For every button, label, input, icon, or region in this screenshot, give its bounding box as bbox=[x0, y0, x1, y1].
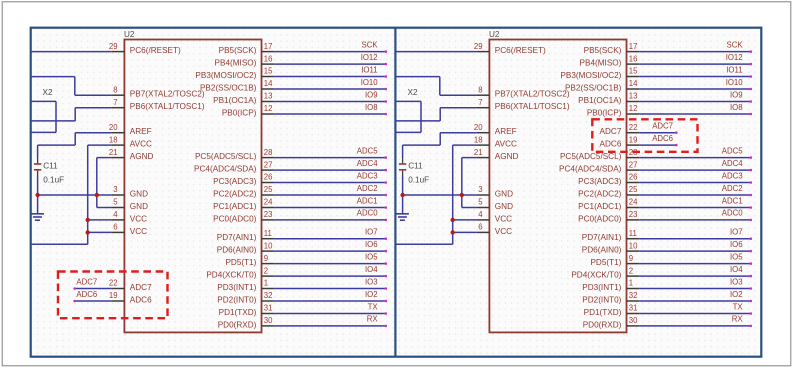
svg-text:ADC0: ADC0 bbox=[357, 209, 378, 218]
svg-text:19: 19 bbox=[629, 135, 638, 144]
svg-text:ADC2: ADC2 bbox=[722, 184, 743, 193]
svg-text:IO4: IO4 bbox=[365, 265, 378, 274]
svg-text:PC4(ADC4/SDA): PC4(ADC4/SDA) bbox=[559, 165, 622, 174]
svg-text:GND: GND bbox=[495, 190, 513, 199]
svg-text:VCC: VCC bbox=[495, 214, 512, 223]
svg-text:2: 2 bbox=[629, 266, 633, 275]
svg-text:9: 9 bbox=[629, 254, 633, 263]
svg-text:ADC3: ADC3 bbox=[357, 171, 378, 180]
svg-text:PB5(SCK): PB5(SCK) bbox=[219, 46, 257, 55]
svg-text:22: 22 bbox=[109, 279, 118, 288]
svg-text:TX: TX bbox=[368, 302, 379, 311]
svg-text:21: 21 bbox=[474, 148, 483, 157]
svg-text:C11: C11 bbox=[43, 162, 58, 171]
svg-text:PC3(ADC3): PC3(ADC3) bbox=[213, 177, 256, 186]
svg-text:PB4(MISO): PB4(MISO) bbox=[215, 59, 257, 68]
svg-text:PB2(SS/OC1B): PB2(SS/OC1B) bbox=[200, 84, 257, 93]
svg-text:6: 6 bbox=[113, 223, 117, 232]
svg-text:VCC: VCC bbox=[130, 214, 147, 223]
svg-text:PD4(XCK/T0): PD4(XCK/T0) bbox=[206, 271, 256, 280]
svg-text:1: 1 bbox=[264, 279, 268, 288]
svg-text:12: 12 bbox=[264, 104, 273, 113]
svg-text:IO8: IO8 bbox=[730, 103, 743, 112]
svg-text:ADC6: ADC6 bbox=[652, 134, 673, 143]
svg-text:PD7(AIN1): PD7(AIN1) bbox=[582, 233, 622, 242]
svg-text:16: 16 bbox=[264, 54, 273, 63]
svg-text:IO3: IO3 bbox=[365, 277, 378, 286]
svg-text:22: 22 bbox=[629, 123, 638, 132]
svg-text:VCC: VCC bbox=[130, 227, 147, 236]
svg-text:25: 25 bbox=[629, 185, 638, 194]
svg-text:2: 2 bbox=[264, 266, 268, 275]
svg-text:IO10: IO10 bbox=[361, 78, 379, 87]
svg-text:IO5: IO5 bbox=[730, 252, 743, 261]
svg-text:IO10: IO10 bbox=[726, 78, 744, 87]
svg-text:RX: RX bbox=[367, 315, 379, 324]
svg-text:PD2(INT0): PD2(INT0) bbox=[217, 296, 256, 305]
svg-text:3: 3 bbox=[113, 185, 117, 194]
svg-text:PC5(ADC5/SCL): PC5(ADC5/SCL) bbox=[560, 152, 622, 161]
svg-text:ADC7: ADC7 bbox=[600, 127, 622, 136]
svg-text:PD6(AIN0): PD6(AIN0) bbox=[582, 246, 622, 255]
svg-text:PB3(MOSI/OC2): PB3(MOSI/OC2) bbox=[195, 71, 256, 80]
svg-text:5: 5 bbox=[113, 198, 118, 207]
svg-text:18: 18 bbox=[474, 135, 483, 144]
svg-text:ADC6: ADC6 bbox=[600, 140, 622, 149]
svg-text:VCC: VCC bbox=[495, 227, 512, 236]
svg-text:IO11: IO11 bbox=[726, 65, 742, 74]
svg-text:IO6: IO6 bbox=[730, 240, 743, 249]
svg-text:15: 15 bbox=[264, 67, 273, 76]
svg-text:PC2(ADC2): PC2(ADC2) bbox=[213, 190, 256, 199]
svg-text:ADC4: ADC4 bbox=[357, 159, 378, 168]
svg-text:8: 8 bbox=[478, 85, 482, 94]
svg-text:U2: U2 bbox=[124, 30, 135, 39]
svg-text:X2: X2 bbox=[408, 88, 418, 97]
svg-text:0.1uF: 0.1uF bbox=[43, 175, 64, 184]
svg-text:GND: GND bbox=[495, 202, 513, 211]
svg-text:3: 3 bbox=[478, 185, 482, 194]
svg-text:28: 28 bbox=[264, 148, 273, 157]
svg-text:PC1(ADC1): PC1(ADC1) bbox=[213, 202, 256, 211]
svg-text:ADC1: ADC1 bbox=[357, 196, 378, 205]
svg-text:PC2(ADC2): PC2(ADC2) bbox=[578, 190, 621, 199]
svg-text:X2: X2 bbox=[43, 88, 53, 97]
svg-text:ADC1: ADC1 bbox=[722, 196, 743, 205]
svg-text:IO7: IO7 bbox=[365, 228, 378, 237]
svg-text:PD4(XCK/T0): PD4(XCK/T0) bbox=[571, 271, 621, 280]
svg-text:PD7(AIN1): PD7(AIN1) bbox=[217, 233, 257, 242]
svg-text:ADC7: ADC7 bbox=[652, 122, 673, 131]
svg-text:PD2(INT0): PD2(INT0) bbox=[582, 296, 621, 305]
svg-text:AGND: AGND bbox=[495, 152, 519, 161]
svg-text:PB6(XTAL1/TOSC1): PB6(XTAL1/TOSC1) bbox=[130, 102, 205, 111]
svg-text:PC3(ADC3): PC3(ADC3) bbox=[578, 177, 621, 186]
svg-text:31: 31 bbox=[264, 304, 273, 313]
svg-text:GND: GND bbox=[130, 202, 148, 211]
svg-text:PB7(XTAL2/TOSC2): PB7(XTAL2/TOSC2) bbox=[495, 90, 570, 99]
svg-text:ADC0: ADC0 bbox=[722, 209, 743, 218]
svg-text:PC6(/RESET): PC6(/RESET) bbox=[130, 46, 181, 55]
svg-text:ADC7: ADC7 bbox=[76, 277, 97, 286]
svg-text:PD1(TXD): PD1(TXD) bbox=[584, 308, 622, 317]
svg-text:PD1(TXD): PD1(TXD) bbox=[219, 308, 257, 317]
svg-text:7: 7 bbox=[113, 98, 117, 107]
svg-text:IO12: IO12 bbox=[361, 53, 378, 62]
svg-text:PD0(RXD): PD0(RXD) bbox=[218, 320, 257, 329]
svg-text:15: 15 bbox=[629, 67, 638, 76]
svg-text:ADC7: ADC7 bbox=[130, 283, 152, 292]
svg-text:PC0(ADC0): PC0(ADC0) bbox=[213, 214, 256, 223]
svg-text:17: 17 bbox=[264, 42, 273, 51]
svg-text:PB3(MOSI/OC2): PB3(MOSI/OC2) bbox=[560, 71, 621, 80]
svg-text:13: 13 bbox=[629, 92, 638, 101]
svg-text:GND: GND bbox=[130, 190, 148, 199]
svg-text:14: 14 bbox=[629, 79, 638, 88]
svg-text:14: 14 bbox=[264, 79, 273, 88]
svg-text:PC4(ADC4/SDA): PC4(ADC4/SDA) bbox=[194, 165, 257, 174]
svg-text:23: 23 bbox=[629, 210, 638, 219]
svg-text:1: 1 bbox=[629, 279, 633, 288]
svg-text:IO2: IO2 bbox=[730, 290, 743, 299]
svg-text:4: 4 bbox=[478, 210, 483, 219]
svg-text:PB1(OC1A): PB1(OC1A) bbox=[578, 96, 621, 105]
svg-text:ADC6: ADC6 bbox=[76, 290, 97, 299]
svg-text:32: 32 bbox=[264, 291, 273, 300]
svg-text:26: 26 bbox=[264, 173, 273, 182]
svg-text:PD3(INT1): PD3(INT1) bbox=[217, 283, 256, 292]
svg-text:PB2(SS/OC1B): PB2(SS/OC1B) bbox=[565, 84, 622, 93]
svg-text:AREF: AREF bbox=[130, 127, 152, 136]
svg-text:RX: RX bbox=[732, 315, 744, 324]
svg-text:AREF: AREF bbox=[495, 127, 517, 136]
svg-text:PC0(ADC0): PC0(ADC0) bbox=[578, 214, 621, 223]
svg-text:30: 30 bbox=[629, 316, 638, 325]
svg-text:0.1uF: 0.1uF bbox=[408, 175, 429, 184]
svg-text:19: 19 bbox=[109, 291, 118, 300]
svg-text:29: 29 bbox=[474, 42, 483, 51]
svg-text:SCK: SCK bbox=[362, 40, 379, 49]
svg-text:7: 7 bbox=[478, 98, 482, 107]
svg-text:ADC6: ADC6 bbox=[130, 296, 152, 305]
svg-text:ADC2: ADC2 bbox=[357, 184, 378, 193]
svg-text:17: 17 bbox=[629, 42, 638, 51]
svg-text:AGND: AGND bbox=[130, 152, 154, 161]
svg-text:TX: TX bbox=[733, 302, 744, 311]
svg-text:PB4(MISO): PB4(MISO) bbox=[580, 59, 622, 68]
svg-text:IO3: IO3 bbox=[730, 277, 743, 286]
svg-text:PD3(INT1): PD3(INT1) bbox=[582, 283, 621, 292]
svg-text:27: 27 bbox=[629, 160, 638, 169]
svg-text:26: 26 bbox=[629, 173, 638, 182]
svg-text:C11: C11 bbox=[408, 162, 423, 171]
svg-text:AVCC: AVCC bbox=[495, 140, 517, 149]
svg-text:8: 8 bbox=[113, 85, 117, 94]
svg-text:PD5(T1): PD5(T1) bbox=[225, 258, 256, 267]
svg-text:11: 11 bbox=[629, 229, 637, 238]
svg-text:PB0(ICP): PB0(ICP) bbox=[222, 109, 257, 118]
svg-text:PC1(ADC1): PC1(ADC1) bbox=[578, 202, 621, 211]
svg-text:6: 6 bbox=[478, 223, 482, 232]
svg-text:ADC5: ADC5 bbox=[357, 146, 378, 155]
svg-text:PB6(XTAL1/TOSC1): PB6(XTAL1/TOSC1) bbox=[495, 102, 570, 111]
svg-text:IO11: IO11 bbox=[361, 65, 377, 74]
svg-text:IO9: IO9 bbox=[365, 90, 378, 99]
svg-text:PC6(/RESET): PC6(/RESET) bbox=[495, 46, 546, 55]
svg-text:5: 5 bbox=[478, 198, 483, 207]
svg-text:23: 23 bbox=[264, 210, 273, 219]
svg-text:PB0(ICP): PB0(ICP) bbox=[587, 109, 622, 118]
svg-text:ADC5: ADC5 bbox=[722, 146, 743, 155]
svg-text:25: 25 bbox=[264, 185, 273, 194]
svg-text:PD6(AIN0): PD6(AIN0) bbox=[217, 246, 257, 255]
svg-text:IO9: IO9 bbox=[730, 90, 743, 99]
svg-text:4: 4 bbox=[113, 210, 118, 219]
svg-text:24: 24 bbox=[629, 198, 638, 207]
svg-text:PD0(RXD): PD0(RXD) bbox=[583, 320, 622, 329]
svg-text:20: 20 bbox=[109, 123, 118, 132]
svg-text:29: 29 bbox=[109, 42, 118, 51]
svg-text:IO6: IO6 bbox=[365, 240, 378, 249]
svg-text:PB1(OC1A): PB1(OC1A) bbox=[213, 96, 256, 105]
svg-text:11: 11 bbox=[264, 229, 272, 238]
svg-text:SCK: SCK bbox=[727, 40, 744, 49]
svg-text:16: 16 bbox=[629, 54, 638, 63]
svg-text:32: 32 bbox=[629, 291, 638, 300]
svg-text:20: 20 bbox=[474, 123, 483, 132]
svg-text:ADC4: ADC4 bbox=[722, 159, 743, 168]
svg-text:31: 31 bbox=[629, 304, 638, 313]
svg-text:24: 24 bbox=[264, 198, 273, 207]
svg-text:IO2: IO2 bbox=[365, 290, 378, 299]
svg-text:PB5(SCK): PB5(SCK) bbox=[584, 46, 622, 55]
svg-text:PC5(ADC5/SCL): PC5(ADC5/SCL) bbox=[195, 152, 257, 161]
svg-text:IO12: IO12 bbox=[726, 53, 743, 62]
svg-text:IO4: IO4 bbox=[730, 265, 743, 274]
svg-text:9: 9 bbox=[264, 254, 268, 263]
svg-text:10: 10 bbox=[264, 241, 273, 250]
svg-text:30: 30 bbox=[264, 316, 273, 325]
svg-text:IO7: IO7 bbox=[730, 228, 743, 237]
svg-text:18: 18 bbox=[109, 135, 118, 144]
svg-text:10: 10 bbox=[629, 241, 638, 250]
svg-text:ADC3: ADC3 bbox=[722, 171, 743, 180]
svg-text:27: 27 bbox=[264, 160, 273, 169]
svg-text:PD5(T1): PD5(T1) bbox=[590, 258, 621, 267]
svg-text:21: 21 bbox=[109, 148, 118, 157]
svg-text:IO8: IO8 bbox=[365, 103, 378, 112]
svg-text:PB7(XTAL2/TOSC2): PB7(XTAL2/TOSC2) bbox=[130, 90, 205, 99]
svg-text:12: 12 bbox=[629, 104, 638, 113]
svg-text:AVCC: AVCC bbox=[130, 140, 152, 149]
svg-text:IO5: IO5 bbox=[365, 252, 378, 261]
svg-text:U2: U2 bbox=[489, 30, 500, 39]
svg-text:13: 13 bbox=[264, 92, 273, 101]
